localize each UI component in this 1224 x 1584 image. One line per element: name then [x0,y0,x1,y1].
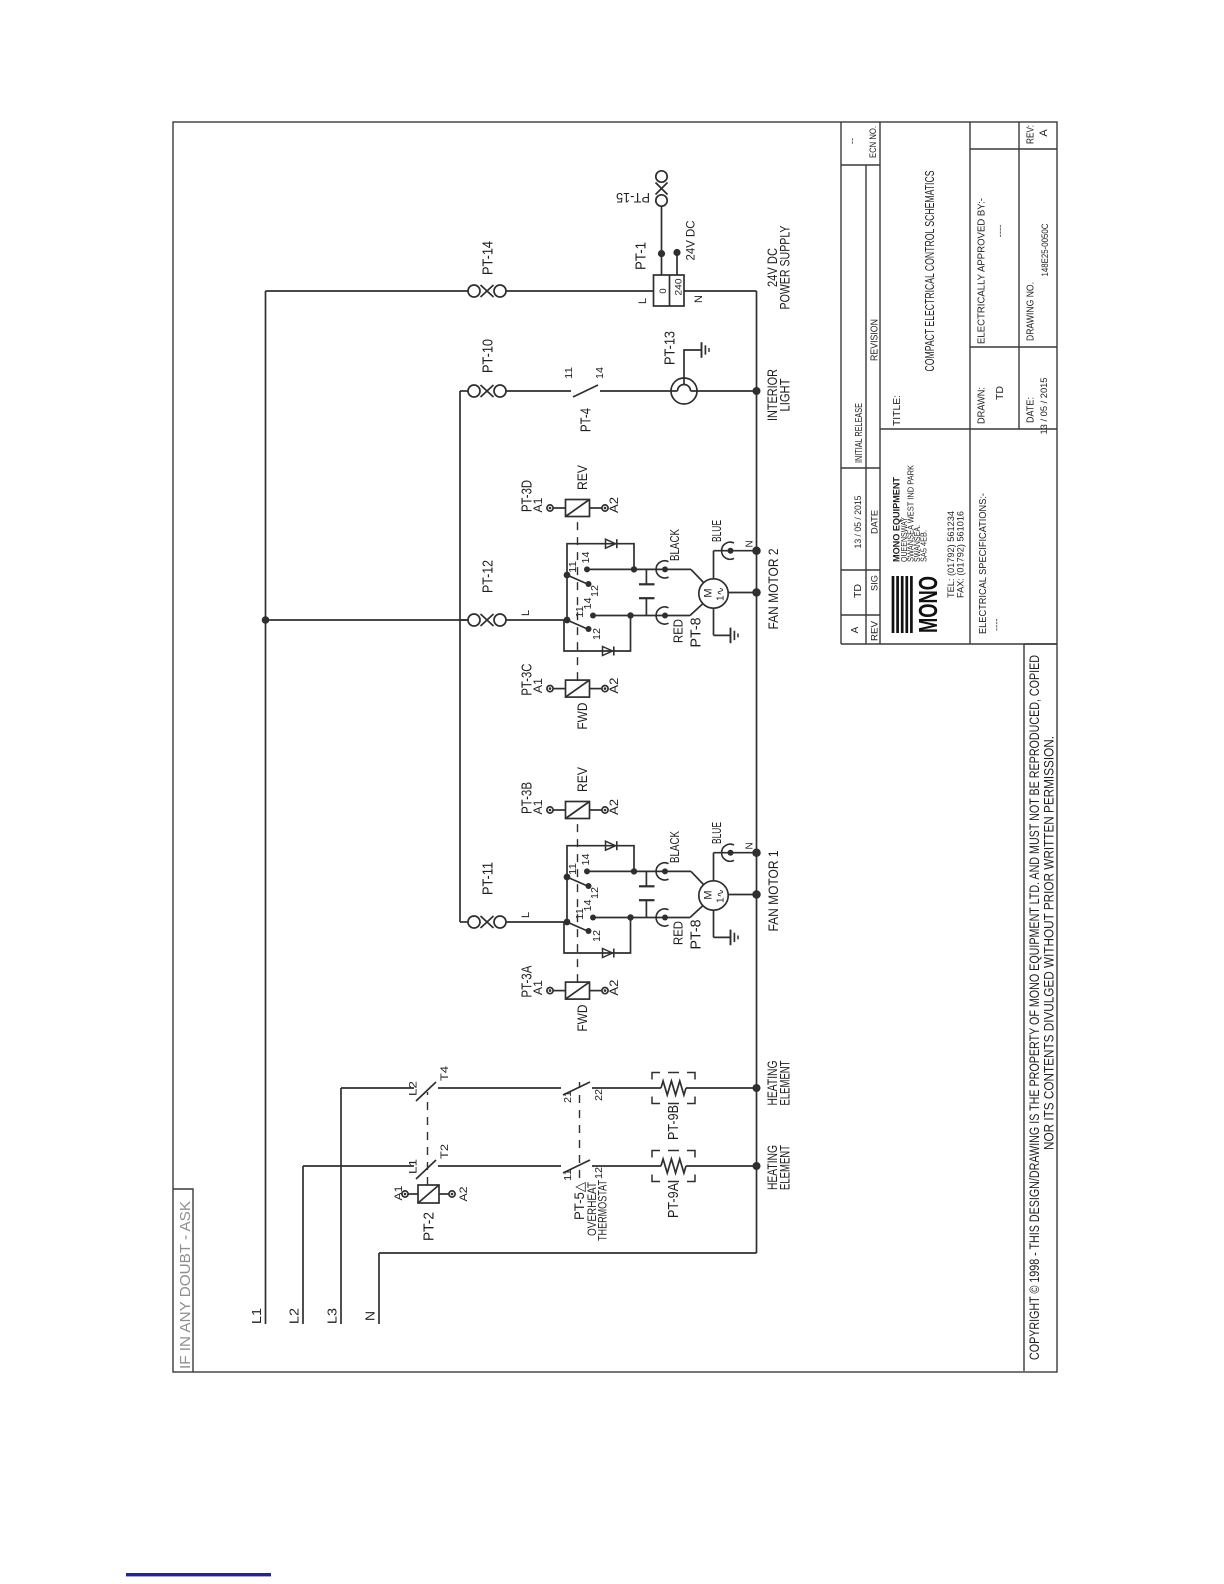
wire [506,390,571,392]
relay contact FWD changeover (pin 11/12/14) [564,919,571,926]
svg-text:24V DC: 24V DC [684,220,698,260]
svg-text:ELECTRICAL SPECIFICATIONS:-: ELECTRICAL SPECIFICATIONS:- [978,493,989,634]
motor PT-8 FAN MOTOR 2 [699,579,728,608]
svg-text:PT-14: PT-14 [481,241,497,275]
wire [438,1087,561,1089]
svg-text:BLUE: BLUE [709,520,724,542]
svg-text:PT-3C: PT-3C [520,664,536,696]
wire [600,390,678,392]
wire fan branch FAN MOTOR 1 [460,921,468,923]
fuse PT-14 [468,285,506,297]
switch PT-4 contact (pin 11/14) [573,385,598,397]
svg-text:PT-9B: PT-9B [666,1105,682,1140]
svg-text:A: A [850,626,861,633]
svg-text:PT-2: PT-2 [422,1212,438,1241]
drawing border frame [173,122,1057,1372]
svg-text:THERMOSTAT: THERMOSTAT [596,1180,610,1241]
svg-text:A: A [1038,129,1050,137]
diode D1 FWD bypass [564,616,631,652]
wire [686,1165,757,1167]
mech link coils dashed [577,517,579,681]
svg-text:0: 0 [658,288,669,293]
wire [686,1087,757,1089]
wire link between changeover contacts [566,877,568,922]
wire REV contact output [587,870,665,872]
svg-text:1∿: 1∿ [716,889,727,903]
wire REV contact output [587,568,665,570]
junction on neutral bus [752,890,761,899]
svg-text:N: N [745,540,756,547]
svg-text:RED: RED [671,921,686,945]
mech link PT-2 dashed [427,1092,429,1185]
svg-text:N: N [745,842,756,849]
svg-text:14: 14 [580,551,592,563]
svg-text:FWD: FWD [575,1004,590,1031]
wire [592,1165,661,1167]
svg-text:PT-8: PT-8 [689,618,705,648]
capacitor run cap [645,900,647,917]
title block frame [840,122,842,644]
junction on neutral bus [752,546,761,555]
svg-text:N: N [693,295,705,303]
svg-text:14: 14 [582,899,594,911]
svg-text:A2: A2 [607,979,621,995]
diode D1 FWD bypass [564,918,631,954]
svg-text:REV: REV [575,465,590,490]
connector RED pigtail [662,915,668,921]
svg-text:DRAWN:: DRAWN: [977,387,988,424]
svg-text:PT-13: PT-13 [663,331,679,365]
svg-text:11: 11 [563,367,575,379]
svg-text:PT-3D: PT-3D [520,480,536,512]
wire motor to bus [728,592,756,594]
wire lamp to bus [691,390,757,392]
svg-text:ELEMENT: ELEMENT [778,1145,793,1190]
svg-text:N: N [363,1311,378,1321]
connector RED pigtail [662,613,668,619]
wire L1 rail [265,291,267,1324]
svg-text:NOR ITS CONTENTS DIVULGED WITH: NOR ITS CONTENTS DIVULGED WITHOUT PRIOR … [1042,736,1057,1150]
svg-text:13 / 05 / 2015: 13 / 05 / 2015 [1039,378,1050,435]
wire [506,290,654,292]
svg-text:L: L [520,912,532,918]
svg-text:A2: A2 [607,497,621,513]
relay coil PT-3B REV [547,807,553,813]
svg-text:PT-12: PT-12 [481,560,497,593]
svg-text:12: 12 [589,887,601,899]
wire N rail [378,1253,380,1324]
svg-text:PT-11: PT-11 [481,862,497,895]
svg-text:----: ---- [992,618,1003,631]
svg-text:PT-10: PT-10 [481,339,497,373]
svg-text:BLACK: BLACK [667,831,682,863]
svg-text:DRAWING NO.: DRAWING NO. [1026,282,1037,341]
svg-text:PT-3B: PT-3B [520,782,536,814]
diode D2 REV bypass [567,544,634,575]
svg-text:L: L [637,298,649,304]
svg-text:12: 12 [591,930,603,942]
svg-text:BLACK: BLACK [667,529,682,561]
svg-text:REV: REV [575,767,590,792]
thermostat PT-5 contact 11/12 [563,1160,590,1173]
svg-text:T2: T2 [439,1144,451,1159]
svg-text:PT-8: PT-8 [689,920,705,950]
svg-text:14: 14 [580,853,592,865]
fuse PT-15 [656,195,667,206]
wire neutral bus [756,291,758,1253]
relay contact REV changeover (pin 11/12/14) [564,874,571,881]
svg-text:IF IN ANY DOUBT - ASK: IF IN ANY DOUBT - ASK [177,1201,194,1369]
svg-text:PT-1: PT-1 [634,242,650,270]
svg-text:----: ---- [995,225,1006,238]
wire FWD contact output [593,917,665,919]
svg-text:M: M [703,588,715,597]
svg-text:TITLE:: TITLE: [892,395,903,426]
wire N drop to neutral bus [379,1252,757,1254]
junction on neutral bus [753,387,761,395]
svg-text:ECN NO.: ECN NO. [868,126,878,158]
svg-text:A2: A2 [607,677,621,693]
fuse PT-12 [468,614,506,626]
svg-text:240: 240 [674,279,685,296]
ground motor earth [713,910,715,937]
relay contact FWD changeover (pin 11/12/14) [564,617,571,624]
svg-text:L1: L1 [408,1159,420,1174]
svg-text:COMPACT ELECTRICAL CONTROL SCH: COMPACT ELECTRICAL CONTROL SCHEMATICS [922,170,937,371]
connector BLUE pigtail [713,853,715,881]
diode D2 REV bypass [567,846,634,877]
svg-text:A2: A2 [458,1187,470,1202]
thermostat PT-5 contact 21/22 [563,1082,590,1095]
svg-text:REV:: REV: [1026,125,1037,144]
svg-text:FAN MOTOR 1: FAN MOTOR 1 [766,851,781,932]
capacitor run cap [645,598,647,615]
relay contact REV changeover (pin 11/12/14) [564,572,571,579]
wire 24V output stub 2 [676,253,678,276]
svg-text:148E25-0050C: 148E25-0050C [1040,223,1051,276]
svg-text:21: 21 [562,1091,574,1103]
svg-text:LIGHT: LIGHT [778,379,793,412]
svg-text:L2: L2 [287,1308,302,1324]
wire fan branch FAN MOTOR 2 [460,619,468,621]
svg-text:SA5 4EB.: SA5 4EB. [920,530,929,562]
svg-text:INITIAL RELEASE: INITIAL RELEASE [853,403,865,463]
wire interior light branch [460,390,468,392]
relay coil PT-3A FWD [547,987,553,993]
wire link between changeover contacts [566,575,568,620]
mech link PT-5 dashed [579,1082,581,1178]
svg-text:PT-9A: PT-9A [666,1183,682,1218]
power supply unit PT-1 240/0 [654,275,685,306]
wire heating branch PT-9A [303,1165,414,1167]
resistor PT-9B heating element [661,1081,686,1095]
scan artifact bar bottom-left [126,1573,271,1576]
wire motor to bus [728,894,756,896]
wire [592,1087,661,1089]
svg-text:11: 11 [562,1169,574,1181]
svg-text:13 / 05 / 2015: 13 / 05 / 2015 [853,496,864,549]
svg-text:12: 12 [593,1167,605,1179]
connector BLACK pigtail [662,566,668,572]
svg-text:REVISION: REVISION [870,319,881,361]
wire L3 rail [340,1088,342,1324]
svg-text:PT-15: PT-15 [616,190,650,205]
svg-text:DATE:: DATE: [1026,397,1037,423]
svg-text:L2: L2 [408,1081,420,1096]
connector BLACK pigtail [662,868,668,874]
svg-text:--: -- [847,138,858,144]
svg-text:14: 14 [582,597,594,609]
wire heating branch PT-9B [341,1087,414,1089]
resistor PT-9A heating element [661,1159,686,1173]
svg-text:FAN MOTOR 2: FAN MOTOR 2 [766,549,781,630]
relay coil PT-3D REV [547,505,553,511]
fuse PT-11 [468,916,506,928]
junction on neutral bus [752,848,761,857]
junction on neutral bus [753,1084,761,1092]
IF IN ANY DOUBT tab [173,1189,193,1372]
relay coil PT-3C FWD [547,685,553,691]
svg-text:M: M [703,890,715,899]
wire FWD contact output [593,615,665,617]
svg-text:PT-4: PT-4 [579,408,595,432]
svg-text:ELEMENT: ELEMENT [778,1061,793,1106]
svg-text:POWER SUPPLY: POWER SUPPLY [778,226,793,310]
svg-text:PT-3A: PT-3A [520,965,536,997]
svg-text:1∿: 1∿ [716,587,727,601]
svg-text:DATE: DATE [870,510,881,534]
copyright strip [1023,644,1025,1371]
contactor coil PT-2 [402,1191,408,1197]
svg-text:SIG: SIG [870,575,881,591]
contactor PT-2 contact L2/T4 [416,1082,436,1101]
svg-text:A1: A1 [393,1186,405,1201]
svg-text:A2: A2 [607,799,621,815]
svg-text:MONO: MONO [913,576,943,633]
svg-text:T4: T4 [439,1066,451,1081]
ground lamp earth [701,342,703,358]
svg-text:22: 22 [593,1089,605,1101]
svg-text:REV: REV [870,620,881,641]
ground motor earth [713,608,715,635]
svg-text:L: L [520,610,532,616]
wire [506,921,567,923]
wire to PT-15 [661,207,663,254]
svg-text:FWD: FWD [575,702,590,729]
svg-text:TD: TD [995,386,1006,400]
svg-text:L3: L3 [325,1308,340,1324]
svg-text:COPYRIGHT © 1998 - THIS DESIGN: COPYRIGHT © 1998 - THIS DESIGN/DRAWING I… [1027,655,1042,1360]
connector BLUE pigtail [713,551,715,579]
wire L1 distribution feed [266,619,469,621]
wire PSU to bus [684,290,757,292]
svg-text:FAX: (01792) 561016: FAX: (01792) 561016 [956,511,966,598]
svg-text:TEL: (01792) 561234: TEL: (01792) 561234 [946,511,956,598]
contactor PT-2 contact L1/T2 [416,1160,436,1179]
svg-text:12: 12 [591,628,603,640]
junction on neutral bus [752,588,761,597]
wire 24V output stub 1 [661,254,663,275]
motor PT-8 FAN MOTOR 1 [699,881,728,910]
wire [438,1165,561,1167]
mech link coils dashed [577,819,579,983]
svg-text:RED: RED [671,619,686,643]
junction on neutral bus [753,1162,761,1170]
logo MONO [892,576,895,633]
wire branch feed line [459,391,461,922]
svg-text:12: 12 [589,585,601,597]
svg-text:TD: TD [853,584,864,598]
fuse PT-10 [468,385,506,397]
svg-text:14: 14 [594,367,606,379]
lamp PT-13 interior light [671,378,697,404]
wire L2 rail [302,1166,304,1324]
svg-text:BLUE: BLUE [709,822,724,844]
wire [506,619,567,621]
svg-text:ELECTRICALLY APPROVED BY:-: ELECTRICALLY APPROVED BY:- [977,198,988,344]
wire power supply branch [266,290,469,292]
wire lamp to ground [684,350,701,385]
svg-text:L1: L1 [249,1308,264,1324]
